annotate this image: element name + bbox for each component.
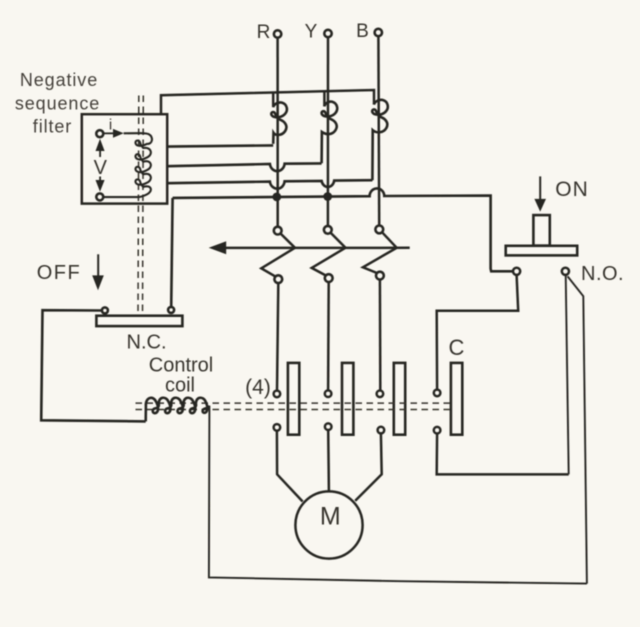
main contact Y: moving bar: [342, 363, 353, 435]
negative sequence filter box: [82, 114, 167, 203]
wire CT branch Y: [323, 91, 326, 106]
switch pole B: blade: [363, 232, 397, 273]
N.O. blade right line to bottom loop: [568, 276, 587, 583]
dashed link: coil to contact bars (horizontal pair): [136, 403, 451, 409]
svg-text:N.C.: N.C.: [127, 332, 167, 354]
wire Y to contactor: [327, 282, 330, 390]
N.C. right terminal: [168, 307, 174, 313]
main contact B: upper terminal: [377, 391, 384, 398]
wire B phase line: [377, 36, 380, 225]
label "Negative sequence filter": [15, 70, 100, 137]
switch pole R: upper contact: [274, 227, 282, 235]
junction dot on R: [272, 193, 281, 202]
control coil winding: [146, 398, 209, 422]
main contact R: upper terminal: [274, 391, 281, 398]
ON button bar: [506, 246, 578, 256]
svg-text:ON: ON: [555, 178, 589, 201]
N.C. left terminal: [102, 307, 108, 313]
CT coil on Y phase: [322, 102, 338, 164]
svg-text:i: i: [109, 117, 112, 134]
wire contactor B to motor: [355, 434, 382, 501]
wire R CT to filter: [167, 145, 273, 146]
svg-text:OFF: OFF: [37, 262, 82, 284]
svg-text:Negative: Negative: [20, 70, 98, 90]
gang switch bus with arrow: [222, 247, 410, 250]
junction dot on Y: [323, 192, 332, 201]
filter terminal top: [96, 130, 103, 137]
CT coil on B phase: [372, 100, 388, 180]
aux contact C: upper terminal: [434, 390, 441, 397]
wire R to contactor: [277, 283, 278, 390]
switch pole R: blade: [261, 233, 295, 276]
svg-text:(4): (4): [245, 376, 271, 399]
wire ON left terminal to C top: [437, 275, 519, 390]
ON left terminal: [513, 268, 520, 275]
OFF arrow: [97, 254, 99, 276]
CT coil on R phase: [271, 102, 287, 143]
svg-text:M: M: [320, 503, 341, 531]
wire N.C. to control coil: [41, 310, 146, 421]
svg-text:N.O.: N.O.: [581, 263, 624, 285]
wire B to contactor: [379, 280, 382, 391]
terminal R: [274, 30, 281, 37]
wire contactor Y to motor: [327, 430, 330, 491]
main contact Y: upper terminal: [325, 390, 332, 397]
main contact Y: lower terminal: [325, 423, 332, 430]
aux contact C: lower terminal: [434, 427, 441, 434]
motor M: [295, 491, 362, 558]
wire R phase line: [276, 38, 279, 227]
ON button plunger: [533, 215, 549, 246]
switch pole B: upper contact: [375, 226, 383, 234]
switch pole B: lower contact: [376, 272, 384, 280]
aux contact C: moving bar: [451, 363, 462, 435]
wire Y phase line: [327, 37, 330, 226]
N.C. button bar: [96, 316, 182, 326]
wire B CT to filter (hops Y and R): [167, 180, 372, 189]
svg-text:sequence: sequence: [15, 94, 100, 114]
ON arrow: [539, 176, 541, 199]
svg-text:V: V: [94, 157, 108, 179]
filter terminal bottom: [96, 193, 103, 200]
filter relay coil: [103, 133, 152, 197]
terminal B: [375, 29, 382, 36]
wire contactor R to motor: [277, 431, 303, 502]
svg-text:coil: coil: [165, 375, 195, 397]
svg-text:C: C: [449, 335, 465, 360]
switch pole Y: upper contact: [324, 226, 332, 234]
V arrow up: [96, 139, 105, 151]
switch pole R: lower contact: [274, 275, 282, 283]
wire Y CT to filter (hops R): [167, 163, 321, 171]
main contact B: lower terminal: [378, 427, 385, 434]
wire filter top bus: [161, 90, 374, 114]
V arrow down: [99, 177, 101, 182]
main contact R: lower terminal: [274, 424, 281, 431]
main contact R: moving bar: [288, 363, 299, 435]
svg-text:Control: Control: [149, 355, 213, 377]
svg-text:Y: Y: [305, 22, 318, 43]
svg-text:R: R: [257, 22, 271, 43]
switch pole Y: lower contact: [325, 274, 333, 282]
svg-text:B: B: [356, 21, 369, 42]
wire C bottom to N.O. blade: [437, 434, 569, 475]
wire bottom return loop: [209, 406, 587, 584]
N.O. blade left line: [566, 275, 569, 474]
wire junction down to N.C.: [171, 198, 172, 307]
i arrow into coil: [104, 132, 114, 134]
svg-text:filter: filter: [33, 117, 72, 137]
dashed link: filter trip to N.C. (vertical pair): [138, 96, 143, 316]
terminal Y: [324, 30, 331, 37]
wire CT branch R: [272, 93, 275, 107]
wire junction line R-Y to ON button (hops B): [173, 188, 513, 271]
switch pole Y: blade: [312, 233, 346, 276]
ON right terminal (N.O.): [562, 268, 569, 275]
main contact B: moving bar: [394, 363, 405, 435]
